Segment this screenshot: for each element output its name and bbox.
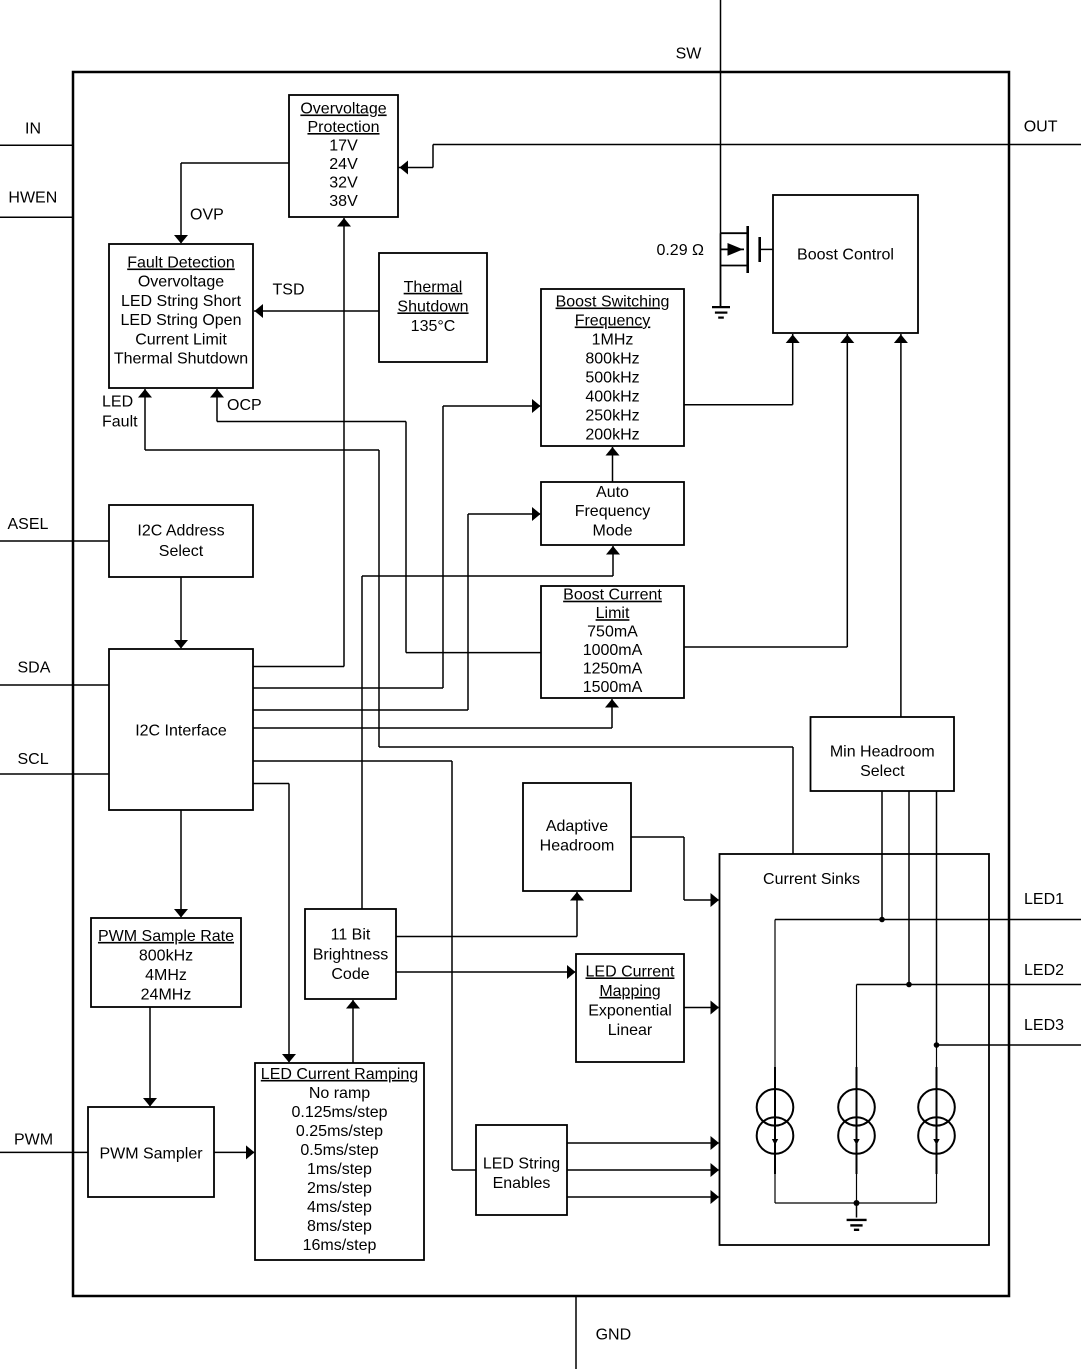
block: Overvoltage Protection <box>289 95 398 217</box>
wire: OCP Boost Current Limit to Fault Detection <box>406 652 541 654</box>
block: LED Current Ramping <box>255 1063 424 1260</box>
wire: I2C to LED String Enables <box>253 760 452 762</box>
wire: 11 Bit Brightness Code to LED Current Mapping <box>396 971 575 973</box>
ground (MOSFET source) <box>712 306 730 308</box>
ground (current sinks) <box>856 1203 858 1218</box>
wire: I2C Address Select to I2C Interface <box>180 577 182 648</box>
block: 11 Bit Brightness Code <box>305 909 396 999</box>
node LED2 junction <box>906 982 912 988</box>
pin LED3 <box>937 1044 1081 1046</box>
svg-text:SDA: SDA <box>18 660 51 677</box>
node LED1 junction <box>879 917 885 923</box>
svg-text:HWEN: HWEN <box>8 189 57 206</box>
wire: Adaptive Headroom to Current Sinks <box>631 836 684 838</box>
svg-text:I2C Interface: I2C Interface <box>135 722 227 739</box>
svg-text:LED3: LED3 <box>1024 1017 1064 1034</box>
svg-text:SCL: SCL <box>18 751 49 768</box>
wire: LED Current Mapping to Current Sinks <box>684 1007 719 1009</box>
current source sink3 <box>936 1067 938 1174</box>
wire: OUT net (right edge to OVP) <box>433 144 1081 146</box>
svg-text:Boost Control: Boost Control <box>797 247 894 264</box>
wire: sink common bus <box>775 1202 937 1204</box>
svg-text:LED1: LED1 <box>1024 891 1064 908</box>
transistor: boost NMOS switch <box>720 233 722 307</box>
svg-text:OVP: OVP <box>190 207 224 224</box>
wire: LED1 node down to sink 1 <box>774 920 776 1068</box>
wire: Boost Current Limit to Boost Control <box>684 646 847 648</box>
svg-text:TSD: TSD <box>273 282 305 299</box>
pin ASEL <box>0 540 109 542</box>
svg-text:SW: SW <box>676 45 703 62</box>
pin PWM <box>0 1151 88 1153</box>
pin HWEN <box>0 216 73 218</box>
svg-text:OUT: OUT <box>1024 119 1058 136</box>
wire: Min Headroom Select to LED2 node <box>908 791 910 985</box>
svg-text:IN: IN <box>25 121 41 138</box>
wire: Min Headroom Select to LED1 node <box>881 791 883 920</box>
svg-text:PWM: PWM <box>14 1132 53 1149</box>
block: I2C Interface <box>109 649 253 810</box>
wire: I2C to Auto Frequency Mode <box>253 709 468 711</box>
wire: OVP to Fault Detection <box>181 162 289 164</box>
node: sink bus ground junction <box>854 1200 860 1206</box>
node LED3 junction <box>934 1042 940 1048</box>
wire: PWM Sample Rate to PWM Sampler <box>149 1007 151 1106</box>
current source sink2 <box>856 1067 858 1174</box>
svg-text:ASEL: ASEL <box>8 516 49 533</box>
pin LED1 <box>775 919 1081 921</box>
block: Boost Control <box>773 195 918 333</box>
wire: LED fault, Current Sinks to Fault Detection <box>792 747 794 854</box>
pin SDA <box>0 684 109 686</box>
svg-text:LED2: LED2 <box>1024 962 1064 979</box>
block: Adaptive Headroom <box>523 783 631 891</box>
svg-text:OCP: OCP <box>227 397 262 414</box>
current source sink1 <box>774 1067 776 1174</box>
wire: Auto Frequency Mode to Boost Switching Frequency <box>612 447 614 482</box>
block: Current Sinks <box>720 854 990 1245</box>
pin LED2 <box>857 984 1081 986</box>
block: Fault Detection <box>109 244 253 388</box>
wire: LED3 node down to sink 3 <box>936 1045 938 1067</box>
svg-text:LED: LED <box>102 394 133 411</box>
wire: I2C to Boost Switching Frequency <box>253 687 443 689</box>
wire: PWM Sampler to LED Current Ramping <box>214 1151 254 1153</box>
wire: Boost Switching Frequency to Boost Control <box>684 404 793 406</box>
wire: I2C to LED Current Ramping <box>253 783 289 785</box>
chip boundary <box>73 72 1009 1296</box>
block: Min Headroom Select <box>811 717 955 791</box>
svg-text:PWM Sampler: PWM Sampler <box>99 1145 203 1162</box>
svg-text:GND: GND <box>596 1327 632 1344</box>
block: Thermal Shutdown <box>379 253 487 362</box>
wire: I2C Interface to PWM Sample Rate <box>180 810 182 917</box>
svg-text:0.29 Ω: 0.29 Ω <box>656 242 704 259</box>
wire: Min Headroom Select to LED3 node <box>936 791 938 1045</box>
wire: LED String Enables to Current Sinks (EN2) <box>567 1169 719 1171</box>
svg-text:Current Sinks: Current Sinks <box>763 871 860 888</box>
pin SW <box>720 0 722 233</box>
wire: I2C to Boost Current Limit <box>253 727 612 729</box>
block: PWM Sampler <box>88 1107 214 1197</box>
block: LED Current Mapping <box>576 954 684 1062</box>
block: Auto Frequency Mode <box>541 482 684 545</box>
wire: I2C to Overvoltage Protection <box>253 666 344 668</box>
block: I2C Address Select <box>109 505 253 577</box>
wire: 11 Bit Brightness Code to Auto Frequency Mode <box>361 576 363 909</box>
pin IN <box>0 144 73 146</box>
block: Boost Switching Frequency <box>541 289 684 446</box>
block: Boost Current Limit <box>541 586 684 698</box>
wire: LED2 node down to sink 2 <box>856 985 858 1068</box>
block: PWM Sample Rate <box>91 918 241 1007</box>
wire: 11 Bit Brightness Code to Adaptive Headroom <box>396 936 577 938</box>
wire: TSD Thermal Shutdown to Fault Detection <box>254 310 379 312</box>
svg-text:Fault: Fault <box>102 414 138 431</box>
wire: LED String Enables to Current Sinks (EN3) <box>567 1196 719 1198</box>
wire: LED String Enables to Current Sinks (EN1) <box>567 1142 719 1144</box>
pin SCL <box>0 773 109 775</box>
wire: LED Current Ramping to 11 Bit Brightness Code <box>352 1000 354 1063</box>
block: LED String Enables <box>476 1125 567 1215</box>
pin GND <box>575 1296 577 1369</box>
wire: Min Headroom Select to Boost Control <box>900 334 902 717</box>
